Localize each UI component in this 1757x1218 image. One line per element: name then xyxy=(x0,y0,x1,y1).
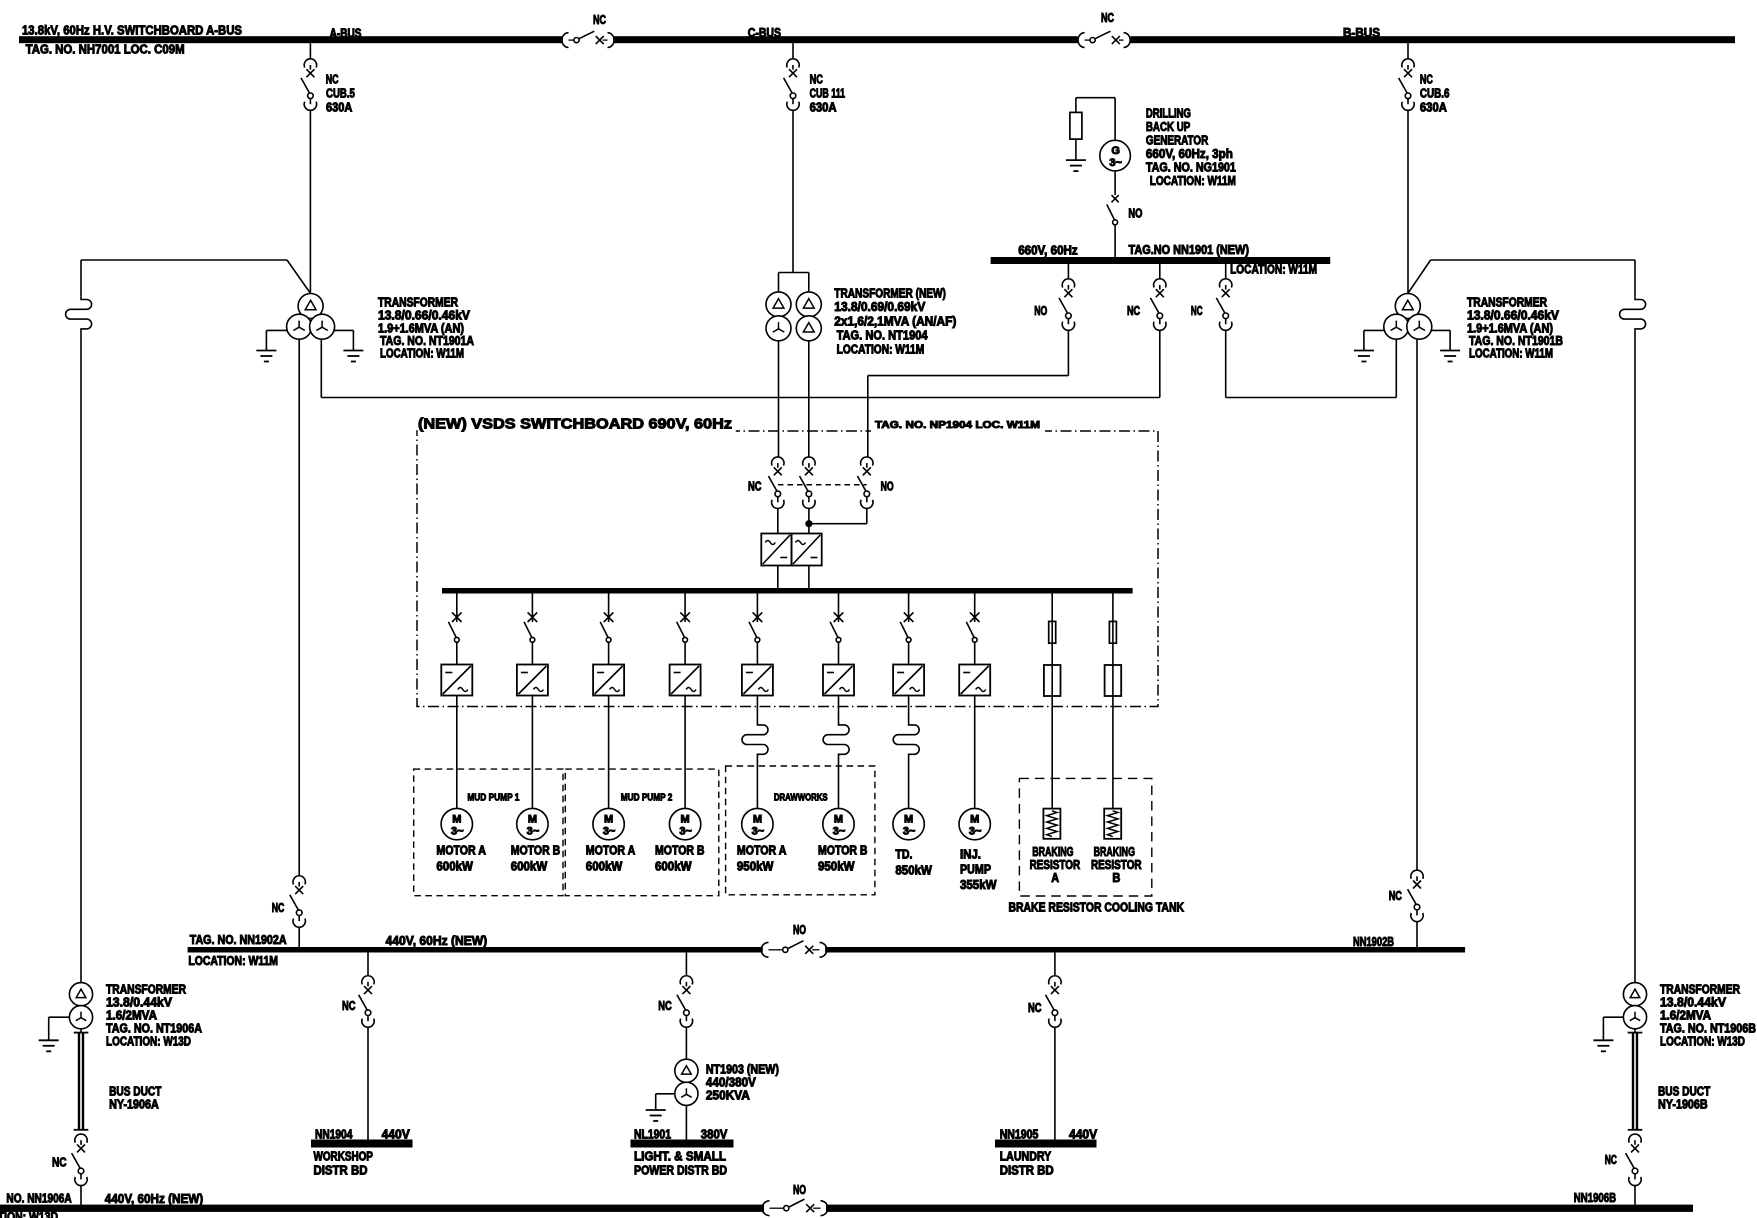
svg-text:TRANSFORMER: TRANSFORMER xyxy=(106,983,186,997)
svg-text:NY-1906B: NY-1906B xyxy=(1658,1098,1708,1112)
svg-text:3~: 3~ xyxy=(752,826,765,838)
svg-text:13.8/0.44kV: 13.8/0.44kV xyxy=(106,996,173,1010)
svg-text:NC: NC xyxy=(748,479,762,493)
svg-text:380V: 380V xyxy=(701,1128,728,1142)
svg-text:600kW: 600kW xyxy=(436,860,473,874)
svg-text:TRANSFORMER (NEW): TRANSFORMER (NEW) xyxy=(834,287,946,301)
svg-text:LIGHT. & SMALL: LIGHT. & SMALL xyxy=(634,1149,726,1163)
svg-text:3~: 3~ xyxy=(903,826,916,838)
svg-text:C-BUS: C-BUS xyxy=(748,26,781,40)
svg-text:DRILLING: DRILLING xyxy=(1146,107,1191,121)
svg-text:660V, 60Hz, 3ph: 660V, 60Hz, 3ph xyxy=(1146,147,1233,161)
svg-text:250KVA: 250KVA xyxy=(706,1089,750,1103)
svg-text:LOCATION: W13D: LOCATION: W13D xyxy=(1660,1035,1745,1049)
svg-text:LOCATION: W11M: LOCATION: W11M xyxy=(837,342,925,356)
svg-text:630A: 630A xyxy=(810,101,837,115)
svg-text:NC: NC xyxy=(342,999,356,1013)
svg-text:13.8/0.69/0.69kV: 13.8/0.69/0.69kV xyxy=(834,300,926,314)
svg-text:TAG. NO. NH7001 LOC. C09M: TAG. NO. NH7001 LOC. C09M xyxy=(26,41,185,56)
svg-text:TRANSFORMER: TRANSFORMER xyxy=(1467,296,1547,310)
svg-text:TRANSFORMER: TRANSFORMER xyxy=(378,296,458,310)
svg-text:NO: NO xyxy=(793,923,806,937)
svg-text:13.8/0.66/0.46kV: 13.8/0.66/0.46kV xyxy=(1467,309,1560,323)
svg-text:950kW: 950kW xyxy=(737,860,774,874)
svg-text:1.6/2MVA: 1.6/2MVA xyxy=(106,1009,157,1023)
svg-text:LOCATION: W11M: LOCATION: W11M xyxy=(188,954,278,968)
svg-text:NC: NC xyxy=(1127,304,1140,318)
svg-text:660V, 60Hz: 660V, 60Hz xyxy=(1018,244,1077,258)
svg-text:1.6/2MVA: 1.6/2MVA xyxy=(1660,1009,1711,1023)
svg-text:DISTR BD: DISTR BD xyxy=(314,1163,368,1177)
svg-text:BRAKE RESISTOR COOLING TANK: BRAKE RESISTOR COOLING TANK xyxy=(1009,901,1185,915)
svg-text:440V: 440V xyxy=(1069,1128,1098,1142)
svg-text:TD.: TD. xyxy=(895,848,912,862)
svg-text:3~: 3~ xyxy=(451,826,464,838)
svg-text:LOCATION: W11M: LOCATION: W11M xyxy=(1469,347,1553,361)
svg-text:13.8/0.66/0.46kV: 13.8/0.66/0.46kV xyxy=(378,309,471,323)
svg-text:LOCATION: W13D: LOCATION: W13D xyxy=(0,1210,58,1218)
svg-text:TAG. NO. NG1901: TAG. NO. NG1901 xyxy=(1146,160,1236,174)
svg-text:M: M xyxy=(753,814,762,826)
svg-text:440V, 60Hz (NEW): 440V, 60Hz (NEW) xyxy=(386,934,488,948)
svg-text:BUS DUCT: BUS DUCT xyxy=(109,1085,162,1099)
svg-text:3~: 3~ xyxy=(679,826,692,838)
svg-text:A-BUS: A-BUS xyxy=(330,27,362,41)
svg-text:NC: NC xyxy=(658,999,672,1013)
svg-text:RESISTOR: RESISTOR xyxy=(1091,858,1142,872)
svg-text:MOTOR A: MOTOR A xyxy=(436,844,486,858)
svg-text:RESISTOR: RESISTOR xyxy=(1030,858,1081,872)
svg-text:BRAKING: BRAKING xyxy=(1094,845,1135,859)
svg-text:600kW: 600kW xyxy=(586,860,623,874)
svg-text:850kW: 850kW xyxy=(895,864,932,878)
svg-text:3~: 3~ xyxy=(969,826,982,838)
svg-text:3~: 3~ xyxy=(603,826,616,838)
svg-text:NC: NC xyxy=(1389,889,1402,903)
svg-text:TAG. NO. NT1906A: TAG. NO. NT1906A xyxy=(106,1022,202,1036)
svg-text:NO: NO xyxy=(1034,304,1047,318)
svg-text:M: M xyxy=(452,814,461,826)
svg-text:TAG. NO. NP1904 LOC. W11M: TAG. NO. NP1904 LOC. W11M xyxy=(875,419,1040,431)
svg-text:NT1903 (NEW): NT1903 (NEW) xyxy=(706,1063,779,1077)
svg-text:M: M xyxy=(904,814,913,826)
svg-text:LOCATION: W13D: LOCATION: W13D xyxy=(106,1035,191,1049)
svg-text:NC: NC xyxy=(52,1155,67,1169)
svg-text:NY-1906A: NY-1906A xyxy=(109,1098,159,1112)
svg-text:CUB.6: CUB.6 xyxy=(1420,87,1450,101)
svg-text:TAG. NO. NT1904: TAG. NO. NT1904 xyxy=(837,329,928,343)
svg-text:B: B xyxy=(1112,871,1120,885)
svg-text:13.8kV, 60Hz H.V. SWITCHBOARD: 13.8kV, 60Hz H.V. SWITCHBOARD A-BUS xyxy=(22,23,242,38)
svg-text:CUB 111: CUB 111 xyxy=(810,87,846,101)
svg-text:GENERATOR: GENERATOR xyxy=(1146,133,1208,147)
svg-text:BUS DUCT: BUS DUCT xyxy=(1658,1085,1711,1099)
svg-text:NC: NC xyxy=(1028,1001,1042,1015)
svg-text:POWER DISTR BD: POWER DISTR BD xyxy=(634,1163,727,1177)
svg-text:M: M xyxy=(834,814,843,826)
svg-text:13.8/0.44kV: 13.8/0.44kV xyxy=(1660,996,1727,1010)
svg-text:LOCATION: W11M: LOCATION: W11M xyxy=(1230,263,1317,277)
svg-text:NO. NN1906A: NO. NN1906A xyxy=(6,1192,71,1206)
svg-text:NN1905: NN1905 xyxy=(1000,1128,1039,1142)
svg-text:NC: NC xyxy=(272,901,285,915)
svg-text:440V: 440V xyxy=(382,1128,411,1142)
svg-text:NO: NO xyxy=(881,479,894,493)
svg-text:NN1904: NN1904 xyxy=(315,1128,352,1142)
svg-text:440V, 60Hz (NEW): 440V, 60Hz (NEW) xyxy=(105,1192,203,1206)
svg-text:NC: NC xyxy=(593,13,606,27)
svg-text:NO: NO xyxy=(793,1183,806,1197)
svg-text:600kW: 600kW xyxy=(511,860,548,874)
svg-text:CUB.5: CUB.5 xyxy=(326,87,355,101)
svg-text:M: M xyxy=(604,814,613,826)
svg-text:INJ.: INJ. xyxy=(960,848,981,862)
svg-text:NN1902B: NN1902B xyxy=(1353,935,1394,949)
svg-text:LOCATION: W11M: LOCATION: W11M xyxy=(380,347,464,361)
svg-text:M: M xyxy=(528,814,537,826)
svg-text:NC: NC xyxy=(1191,304,1203,318)
svg-text:DISTR BD: DISTR BD xyxy=(1000,1163,1054,1177)
svg-text:MUD PUMP 1: MUD PUMP 1 xyxy=(467,792,519,804)
svg-text:NL1901: NL1901 xyxy=(634,1128,671,1142)
svg-text:NC: NC xyxy=(1420,73,1433,87)
svg-text:355kW: 355kW xyxy=(960,878,997,892)
svg-text:MOTOR A: MOTOR A xyxy=(586,844,636,858)
svg-text:630A: 630A xyxy=(1420,101,1447,115)
svg-text:440/380V: 440/380V xyxy=(706,1076,757,1090)
svg-text:M: M xyxy=(681,814,690,826)
svg-text:600kW: 600kW xyxy=(655,860,692,874)
svg-text:A: A xyxy=(1051,871,1059,885)
svg-text:NC: NC xyxy=(1605,1153,1617,1167)
svg-text:NC: NC xyxy=(810,73,823,87)
svg-text:TAG. NO. NT1906B: TAG. NO. NT1906B xyxy=(1660,1022,1756,1036)
svg-text:TAG. NO. NN1902A: TAG. NO. NN1902A xyxy=(190,933,287,947)
svg-text:MOTOR B: MOTOR B xyxy=(655,844,705,858)
svg-text:NC: NC xyxy=(1101,11,1114,25)
svg-text:BACK UP: BACK UP xyxy=(1146,120,1190,134)
svg-text:G: G xyxy=(1111,145,1120,157)
svg-text:DRAWWORKS: DRAWWORKS xyxy=(774,792,828,804)
svg-text:3~: 3~ xyxy=(527,826,540,838)
svg-text:950kW: 950kW xyxy=(818,860,855,874)
svg-text:3~: 3~ xyxy=(1109,157,1122,169)
svg-text:630A: 630A xyxy=(326,101,352,115)
svg-text:NN1906B: NN1906B xyxy=(1574,1191,1616,1205)
svg-text:TAG.NO NN1901 (NEW): TAG.NO NN1901 (NEW) xyxy=(1129,243,1250,257)
svg-text:MUD PUMP 2: MUD PUMP 2 xyxy=(621,792,673,804)
svg-text:LOCATION: W11M: LOCATION: W11M xyxy=(1150,174,1236,188)
svg-text:WORKSHOP: WORKSHOP xyxy=(314,1149,373,1163)
svg-text:B-BUS: B-BUS xyxy=(1343,26,1380,40)
svg-text:NO: NO xyxy=(1128,206,1142,220)
svg-text:MOTOR B: MOTOR B xyxy=(511,844,561,858)
svg-text:BRAKING: BRAKING xyxy=(1032,845,1073,859)
svg-text:TRANSFORMER: TRANSFORMER xyxy=(1660,983,1740,997)
svg-text:M: M xyxy=(970,814,979,826)
svg-text:MOTOR B: MOTOR B xyxy=(818,844,868,858)
svg-text:PUMP: PUMP xyxy=(960,863,991,877)
svg-text:2x1,6/2,1MVA (AN/AF): 2x1,6/2,1MVA (AN/AF) xyxy=(834,315,956,329)
svg-text:NC: NC xyxy=(326,73,339,87)
svg-text:LAUNDRY: LAUNDRY xyxy=(1000,1149,1052,1163)
svg-text:MOTOR A: MOTOR A xyxy=(737,844,787,858)
svg-text:3~: 3~ xyxy=(833,826,846,838)
svg-text:(NEW) VSDS SWITCHBOARD 690V,: (NEW) VSDS SWITCHBOARD 690V, 60Hz xyxy=(418,417,732,433)
